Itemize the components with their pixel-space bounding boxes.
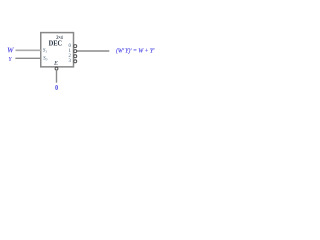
svg-text:W: W [7, 46, 14, 55]
svg-text:DEC: DEC [49, 40, 63, 48]
svg-text:Y: Y [9, 57, 13, 63]
svg-text:S1: S1 [43, 49, 48, 54]
svg-text:0: 0 [55, 83, 58, 92]
svg-text:S0: S0 [43, 56, 48, 61]
svg-text:(W′ Y)′ = W + Y′: (W′ Y)′ = W + Y′ [116, 47, 155, 54]
svg-text:E: E [53, 60, 58, 67]
